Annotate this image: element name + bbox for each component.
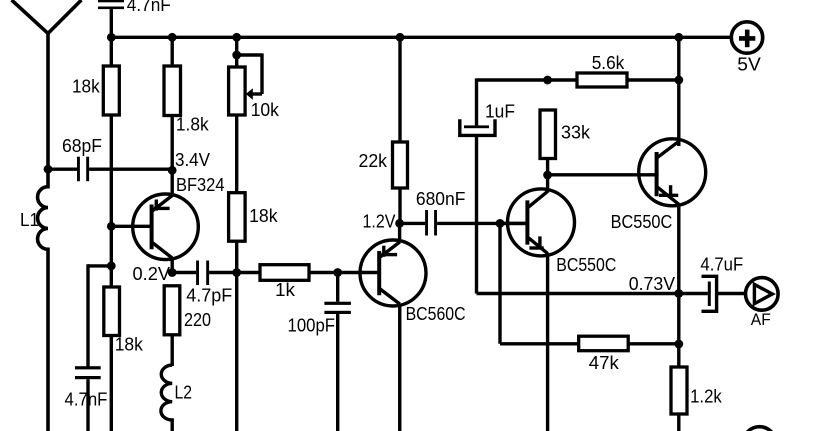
svg-text:680nF: 680nF [416, 188, 466, 209]
node Q3 base junction [496, 219, 505, 228]
svg-text:47k: 47k [589, 352, 620, 373]
output terminal AF [746, 278, 779, 311]
svg-text:4.7nF: 4.7nF [127, 0, 171, 15]
node antenna-L1 junction [44, 165, 53, 174]
node 5.6k-collector junction [674, 76, 683, 85]
svg-text:33k: 33k [561, 121, 591, 142]
supply terminal +5V [731, 22, 762, 53]
svg-text:10k: 10k [251, 99, 280, 120]
node 47k-1.2k junction [674, 340, 683, 349]
svg-text:5.6k: 5.6k [592, 52, 625, 73]
resistor 220 [164, 286, 180, 366]
svg-text:L1: L1 [20, 209, 39, 230]
svg-text:22k: 22k [359, 150, 388, 171]
capacitor 4.7nF (top) [98, 0, 124, 37]
node rail-junction3 [232, 33, 241, 42]
wire to 18k lower [88, 262, 116, 367]
node 33k-collector junction [543, 171, 552, 180]
capacitor 100pF [324, 273, 351, 431]
resistor 5.6k [577, 73, 627, 87]
svg-text:1uF: 1uF [485, 100, 515, 121]
capacitor 1uF (electrolytic) [460, 78, 495, 293]
resistor 33k [540, 110, 556, 175]
svg-text:0.73V: 0.73V [629, 273, 676, 294]
resistor 18k (lower left) [104, 287, 120, 431]
node rail-junction2 [168, 33, 177, 42]
svg-text:68pF: 68pF [62, 135, 102, 156]
transistor Q1 BF324 (PNP) [111, 170, 198, 272]
svg-text:4.7nF: 4.7nF [65, 389, 108, 410]
wire 1uF-33k-5.6k row [477, 78, 679, 81]
transistor Q2 BC560C (PNP) [360, 223, 426, 431]
svg-text:0.2V: 0.2V [133, 263, 171, 284]
svg-text:1.2V: 1.2V [363, 211, 397, 232]
node rail-junction4 [396, 33, 405, 42]
svg-text:18k: 18k [249, 205, 278, 226]
transistor Q3 BC550C (NPN, middle) [500, 175, 575, 431]
wire 0.2V to 4.7pF [172, 271, 196, 274]
svg-text:1.2k: 1.2k [690, 385, 722, 406]
resistor 1k [260, 265, 338, 281]
resistor 47k [579, 336, 679, 351]
svg-text:18k: 18k [72, 75, 100, 96]
antenna [12, 0, 82, 169]
svg-text:AF: AF [751, 310, 771, 329]
transistor Q4 BC550C (NPN, right) [639, 37, 706, 367]
node 4.7pF-10k junction [232, 268, 241, 277]
node 3.4V [168, 166, 177, 175]
wire 5V rail [111, 36, 731, 39]
wire 33k junction to Q4 base [548, 173, 659, 176]
resistor 18k (upper left) [103, 37, 119, 287]
wire Q3 base to 47k [500, 222, 579, 344]
node Q1 base junction [107, 222, 116, 231]
svg-text:5V: 5V [737, 55, 761, 75]
resistor 18k (below potentiometer) [229, 193, 246, 431]
svg-text:BC550C: BC550C [611, 211, 673, 232]
svg-text:BC560C: BC560C [406, 303, 466, 324]
svg-text:BF324: BF324 [176, 174, 225, 195]
node rail-junction5 [674, 33, 683, 42]
capacitor 4.7uF (electrolytic) [679, 276, 746, 311]
node 1k-100pF junction [333, 268, 342, 277]
capacitor 68pF [48, 157, 172, 182]
node rail-junction1 [107, 33, 116, 42]
node 33k-5.6k junction [543, 76, 552, 85]
wire 1k junction to Q2 base [338, 271, 381, 274]
svg-text:L2: L2 [175, 382, 193, 403]
svg-text:220: 220 [184, 309, 211, 330]
node 0.73V [674, 289, 683, 298]
svg-text:1.8k: 1.8k [176, 113, 209, 134]
svg-text:4.7uF: 4.7uF [700, 253, 743, 274]
svg-text:1k: 1k [275, 279, 296, 300]
resistor 22k [393, 37, 408, 223]
capacitor 680nF [400, 210, 529, 236]
node 1.2V [395, 219, 404, 228]
resistor 1.8k [164, 37, 181, 170]
terminal (bottom right, cropped) [743, 427, 776, 431]
svg-text:3.4V: 3.4V [175, 149, 211, 170]
potentiometer 10k [229, 37, 262, 192]
svg-text:18k: 18k [115, 334, 144, 355]
capacitor 4.7nF (bottom) [75, 366, 101, 431]
node 0.2V [168, 268, 177, 277]
inductor L2 [161, 365, 172, 431]
svg-text:100pF: 100pF [288, 314, 336, 335]
resistor 1.2k [671, 367, 687, 431]
inductor L1 [38, 169, 48, 431]
svg-text:BC550C: BC550C [556, 254, 616, 275]
wire 0.73V row [477, 292, 679, 295]
svg-text:4.7pF: 4.7pF [186, 284, 232, 305]
capacitor 4.7pF [196, 261, 260, 286]
